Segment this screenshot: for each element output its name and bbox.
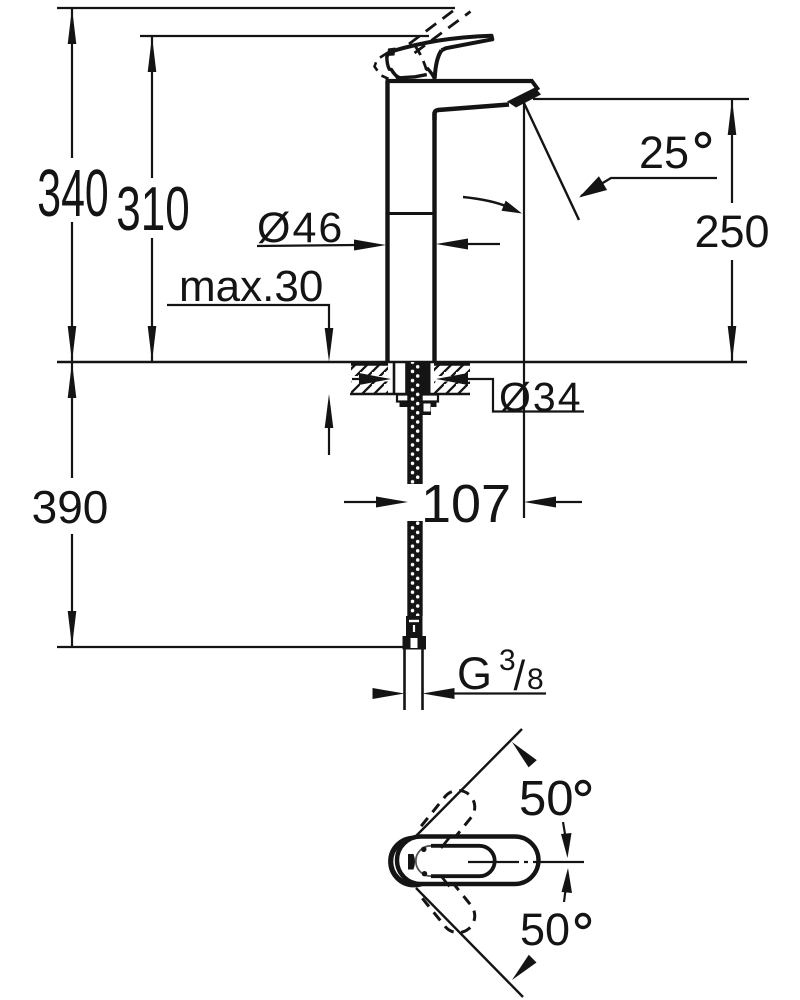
hose end fitting upper bbox=[406, 616, 423, 636]
dimension 390 vertical line bbox=[71, 362, 73, 478]
white notch in block bbox=[424, 404, 431, 412]
supply tube bbox=[403, 650, 406, 711]
lever blade outline bbox=[391, 36, 492, 52]
25 degree slant line from spout tip bbox=[524, 103, 579, 220]
small dot upper bbox=[421, 847, 426, 852]
shank dark bar bbox=[422, 363, 431, 394]
max.30 lower arrow bbox=[328, 424, 330, 455]
countertop line bbox=[57, 361, 747, 364]
small dot lower bbox=[422, 871, 427, 876]
small arc arrow upper bbox=[563, 822, 566, 840]
lever rear corner block bbox=[387, 48, 396, 57]
dashed raised lever rear outline bbox=[375, 53, 389, 79]
tick lower pill edge bbox=[441, 876, 450, 887]
small arc arrow lower bbox=[564, 886, 566, 902]
dimension 250 vertical line bbox=[731, 99, 733, 203]
handle inner pill left cap light bbox=[416, 846, 431, 876]
bottom reference line (390 level) bbox=[57, 646, 403, 648]
faucet body top edge bbox=[386, 79, 534, 83]
svg-text:340: 340 bbox=[37, 155, 109, 230]
spout outlet (black) bbox=[507, 88, 541, 108]
svg-text:310: 310 bbox=[116, 175, 189, 244]
braided hose lower segment bbox=[409, 521, 422, 616]
svg-text:390: 390 bbox=[32, 481, 109, 533]
svg-text:G: G bbox=[457, 648, 492, 699]
dimension 340 vertical line bbox=[71, 8, 73, 158]
svg-text:max.30: max.30 bbox=[179, 262, 323, 311]
lever neck edge bbox=[435, 50, 442, 78]
upper 50 deg axis line bbox=[416, 729, 522, 836]
counter top thick edge left bbox=[351, 361, 388, 366]
spout underside bbox=[435, 105, 510, 121]
svg-text:107: 107 bbox=[421, 474, 511, 534]
svg-text:/: / bbox=[514, 652, 526, 699]
dark D mark bbox=[408, 854, 415, 870]
dashed raised lever edge B bbox=[415, 12, 471, 54]
faucet body right edge bbox=[432, 112, 436, 362]
faucet body circle bbox=[391, 838, 438, 885]
handle inner pill heavy outline bbox=[431, 846, 495, 876]
faucet body left edge bbox=[385, 81, 389, 362]
lower 50 deg axis line bbox=[416, 888, 523, 997]
shank white pipe edges bbox=[393, 362, 396, 394]
label Ø34 with stepped leader bbox=[352, 378, 362, 380]
counter cross-section hatch left bbox=[351, 364, 388, 376]
svg-text:25: 25 bbox=[639, 127, 689, 178]
flow curve arrow bbox=[463, 197, 508, 207]
dimension 107 bbox=[344, 501, 378, 503]
counter band bottom line bbox=[350, 393, 470, 395]
svg-text:8: 8 bbox=[527, 663, 544, 696]
hose end collar bbox=[403, 636, 427, 650]
counter cross-section hatch right bbox=[434, 364, 470, 376]
handle outer pill bbox=[397, 837, 539, 885]
svg-text:250: 250 bbox=[694, 206, 769, 257]
dark block below nut bbox=[421, 406, 432, 416]
dimension 310 vertical line bbox=[151, 36, 153, 178]
svg-text:Ø34: Ø34 bbox=[499, 374, 583, 420]
faucet body joint line bbox=[387, 212, 435, 215]
svg-text:50: 50 bbox=[519, 772, 574, 826]
extension line right (250 level from spout tip) bbox=[533, 98, 749, 100]
vertical line from spout tip bbox=[523, 103, 525, 518]
upper 50 arrowhead bbox=[512, 742, 537, 767]
extension line second (310 level) bbox=[140, 35, 429, 37]
dashed rotated handle lower bbox=[418, 872, 482, 939]
dashed rotated handle upper bbox=[418, 784, 482, 851]
extension line top (340 level) bbox=[57, 7, 455, 9]
lever rear foot notch bbox=[391, 70, 398, 79]
center line bbox=[468, 861, 585, 863]
dashed raised lever inner line bbox=[416, 47, 427, 74]
tick upper pill edge bbox=[441, 838, 450, 849]
dome curve bbox=[427, 68, 435, 79]
spout tip slanted edge bbox=[532, 81, 539, 91]
washer under counter bbox=[397, 395, 438, 402]
braided hose upper segment bbox=[409, 362, 422, 484]
nut dark band bbox=[400, 402, 437, 408]
counter top thick edge right bbox=[434, 361, 470, 366]
dashed raised lever edge A bbox=[409, 8, 458, 45]
lower 50 arrowhead bbox=[512, 955, 537, 980]
lever rear body outline bbox=[387, 51, 427, 78]
svg-text:50: 50 bbox=[520, 904, 570, 955]
